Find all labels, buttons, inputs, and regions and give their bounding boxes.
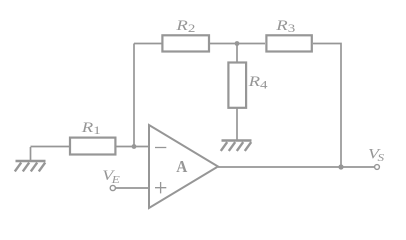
ground GND2 (below R4) <box>221 141 252 151</box>
wire VE-ground stem <box>30 147 32 160</box>
node (junction dot) output <box>338 164 343 169</box>
wire ground to R1 <box>31 146 70 148</box>
ground GND1 (left) <box>15 161 46 171</box>
wire top to R2 <box>134 43 162 45</box>
op-amp plus input sign <box>155 182 166 193</box>
wire VE to non-inverting input <box>115 187 149 189</box>
wire R4 to ground <box>236 108 238 140</box>
svg-text:R1: R1 <box>81 119 101 137</box>
svg-text:R2: R2 <box>175 17 195 35</box>
wire feedback vertical <box>133 44 135 147</box>
node (junction dot) inverting input <box>132 144 137 149</box>
svg-text:R3: R3 <box>275 17 295 35</box>
svg-text:VE: VE <box>102 166 120 185</box>
op-amp U1 triangle <box>149 125 218 208</box>
resistor R3 <box>266 35 311 51</box>
svg-text:VS: VS <box>368 145 384 164</box>
terminal VE (open circle) <box>110 185 115 190</box>
wire R1 to inverting input <box>117 146 150 148</box>
wire R3 to output vertical <box>313 44 341 168</box>
node (junction dot) R2/R3/R4 <box>235 41 240 46</box>
wire op-amp output to VS <box>218 166 375 168</box>
wire node to R4 <box>236 44 238 63</box>
resistor R1 <box>70 138 115 155</box>
op-amp minus input sign <box>155 147 166 149</box>
wire R2 to node <box>210 43 265 45</box>
terminal VS (open circle) <box>375 165 380 170</box>
svg-text:R4: R4 <box>247 73 267 91</box>
resistor R4 <box>228 63 246 108</box>
resistor R2 <box>162 35 209 51</box>
svg-text:A: A <box>176 158 187 176</box>
